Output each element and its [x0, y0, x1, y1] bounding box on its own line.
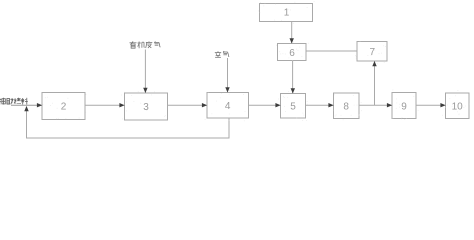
svg-text:5: 5 — [290, 102, 296, 113]
char 辅 (clipped at left) — [0, 98, 5, 105]
char 料 — [21, 98, 28, 105]
svg-text:3: 3 — [143, 102, 149, 113]
char 机 — [138, 42, 145, 49]
block 10 — [446, 93, 470, 119]
svg-text:2: 2 — [61, 102, 67, 113]
wire block4 to block5 — [249, 103, 281, 107]
wire junction(8-9) up to block7 — [372, 61, 376, 105]
wire block9 to block10 — [416, 103, 446, 107]
wire air down into block4 — [225, 58, 229, 93]
char 燃 — [14, 98, 21, 104]
svg-text:7: 7 — [370, 47, 376, 58]
wire fuel inlet into block2 — [11, 103, 42, 107]
char 气 — [154, 41, 160, 47]
block 1 — [260, 4, 313, 22]
label 空气 (air) — [215, 51, 229, 57]
svg-text:4: 4 — [225, 101, 231, 112]
block 7 — [357, 42, 387, 62]
svg-text:8: 8 — [343, 101, 349, 112]
wire block6 to block7 — [306, 50, 357, 52]
wire block1 to block6 — [290, 22, 294, 44]
block 2 — [42, 93, 85, 120]
block 4 — [207, 93, 249, 119]
wire recirculation from block4 bottom to fuel line — [24, 106, 229, 138]
char 废 — [146, 41, 153, 48]
block 3 — [125, 93, 168, 120]
wire block5 to block8 — [306, 103, 334, 107]
svg-text:1: 1 — [284, 8, 290, 19]
block 9 — [392, 93, 416, 119]
svg-text:9: 9 — [401, 101, 407, 112]
label 有机废气 (organic waste gas) — [130, 41, 161, 48]
wire block8 to block9 (with junction to block7) — [359, 103, 392, 107]
wire block2 to block3 — [85, 103, 125, 107]
char 助 — [7, 98, 14, 104]
block 5 — [281, 94, 306, 119]
wire block3 to block4 — [168, 103, 208, 107]
char 气 — [223, 51, 229, 57]
label 辅助燃料 (auxiliary fuel) — [0, 98, 28, 105]
wire organic gas down into block3 — [143, 50, 147, 94]
block 6 — [278, 44, 307, 61]
svg-text:6: 6 — [289, 48, 295, 59]
char 有 — [130, 41, 137, 48]
scan speckle noise — [39, 1, 470, 121]
wire block6 to block5 — [291, 61, 295, 94]
svg-text:10: 10 — [452, 101, 464, 112]
block 8 — [334, 93, 360, 119]
char 空 — [215, 51, 221, 57]
